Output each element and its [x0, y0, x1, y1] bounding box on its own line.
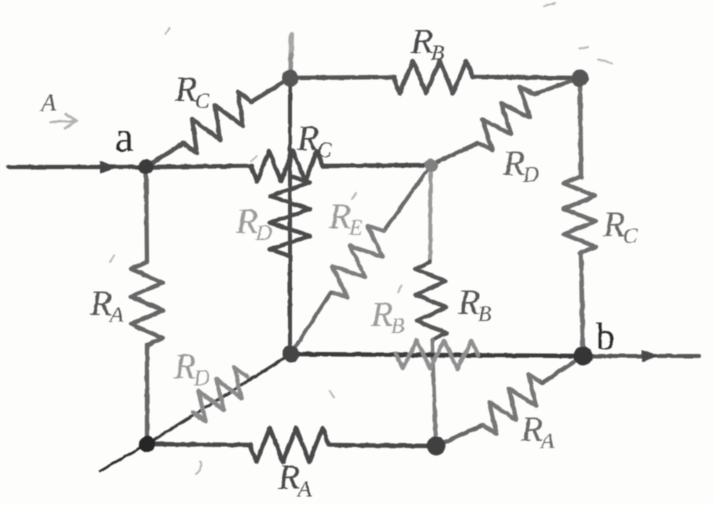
wire: output lead from node b with current arrow [583, 350, 699, 362]
resistor R_A (diagonal front-bottom-right to node b) [436, 356, 583, 446]
wire: stub above back-top-left vertex [289, 35, 295, 55]
resistor R_D (diagonal front-top-right to back-top-right) [431, 78, 580, 165]
wire: thin tail extending past front-bottom-left vertex [100, 444, 147, 471]
back-bottom-left vertex junction dot [283, 346, 300, 363]
svg-text:A: A [39, 90, 57, 117]
resistor R_A (front left edge) [131, 167, 163, 444]
svg-text:b: b [596, 316, 615, 358]
resistor R_E (space diagonal front-top-right to back-bottom-left) [291, 165, 431, 354]
resistor R_C (back right edge) [564, 78, 596, 356]
resistor R_B (back bottom edge, wire drawn through) [291, 340, 583, 368]
node b junction dot [574, 347, 593, 366]
node a junction dot [139, 160, 154, 175]
resistor R_D (back left edge, line drawn through) [270, 78, 310, 355]
current label A with small arrow annotation [39, 90, 77, 128]
front-top-right vertex junction dot [425, 159, 438, 172]
resistor R_C (diagonal a to back-top-left) [146, 78, 290, 167]
resistor R_B (back top edge) [290, 61, 580, 93]
front-bottom-left vertex junction dot [139, 436, 155, 452]
resistor R_C (front top edge) [146, 151, 431, 181]
resistor R_D (diagonal back-bottom-left to front-bottom-left, line through) [147, 354, 291, 444]
back-top-right vertex junction dot [572, 70, 589, 87]
svg-text:a: a [115, 115, 134, 161]
front-bottom-right vertex junction dot [427, 437, 446, 456]
resistor R_B (front right edge) [415, 165, 447, 446]
resistor R_A (front bottom edge) [147, 428, 436, 462]
back-top-left vertex junction dot [282, 70, 299, 87]
wire: input lead into node a with current arrow [8, 161, 146, 174]
